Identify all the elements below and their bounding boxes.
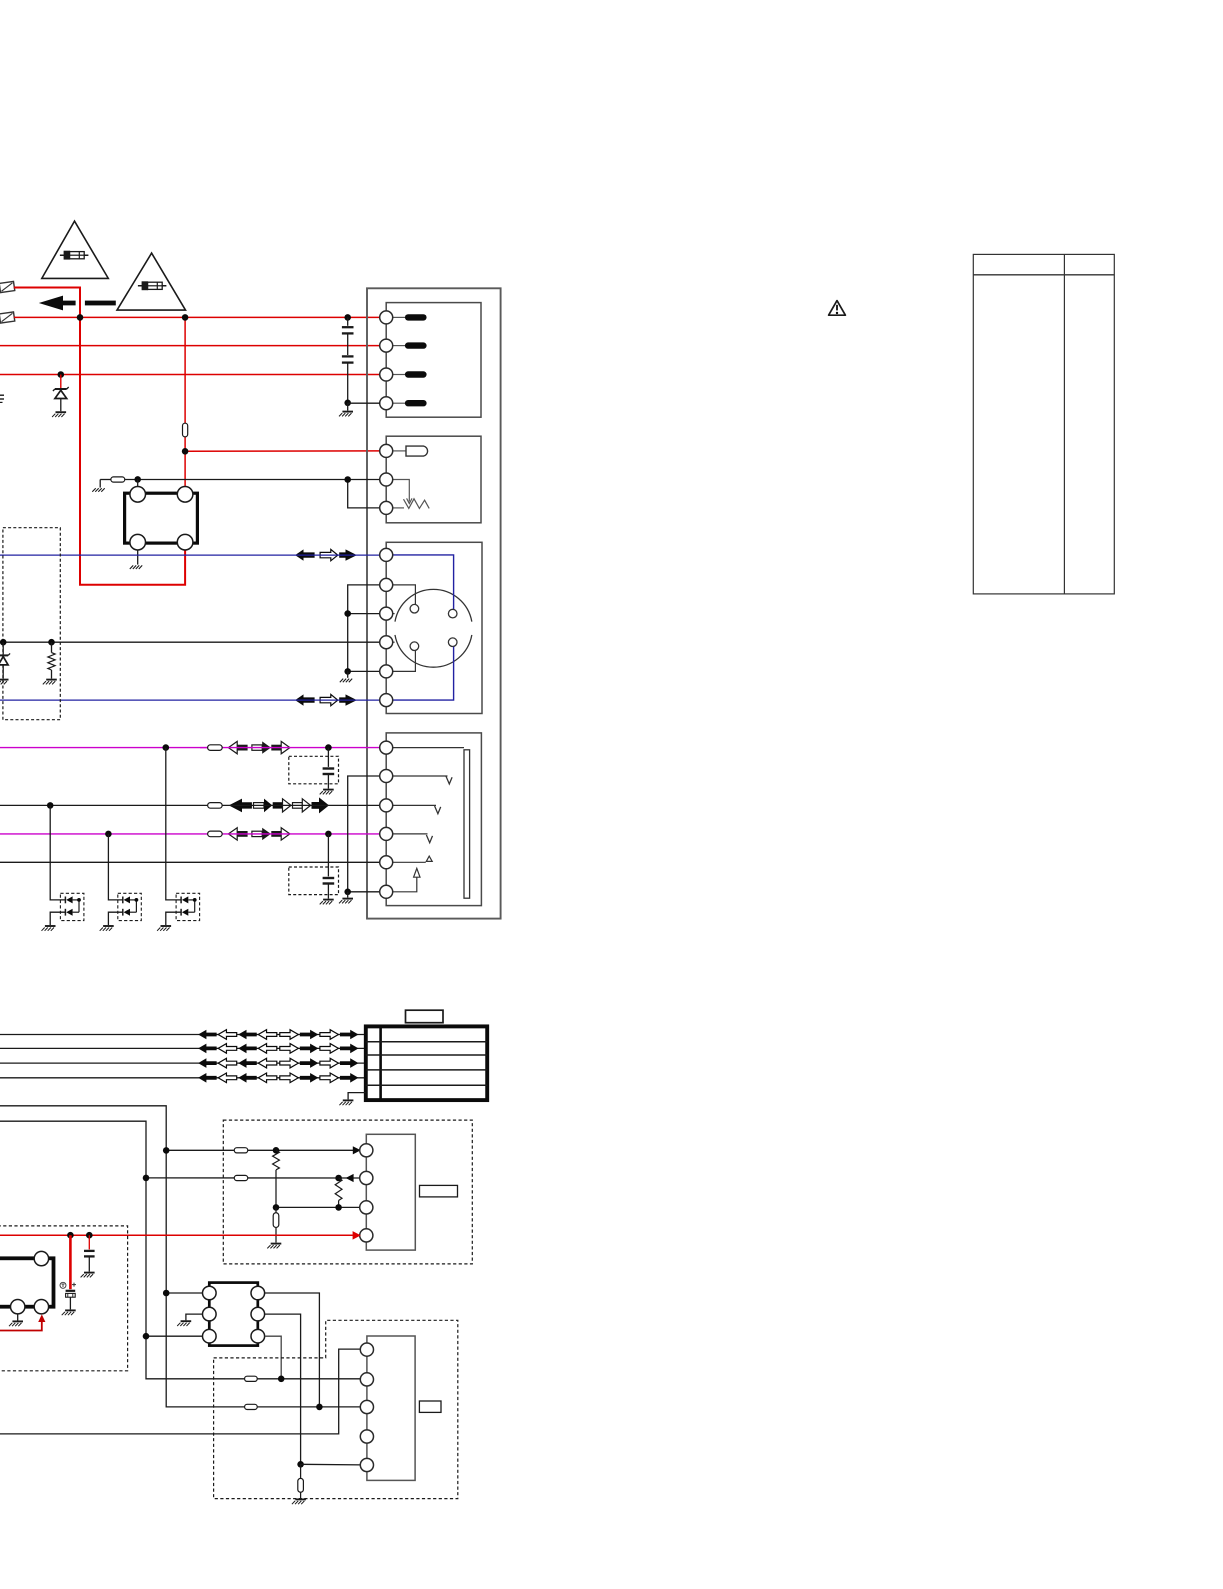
CN3 shield tie bbox=[348, 585, 381, 672]
wire U1 pin3 bbox=[146, 1335, 203, 1337]
ground for TVS Q1 bbox=[45, 925, 56, 927]
wire dimmer junction bbox=[125, 479, 380, 481]
ground for CN4 shield bbox=[342, 898, 353, 900]
ground for display bbox=[343, 1099, 354, 1101]
CN4 lead pin3 bbox=[392, 804, 436, 806]
parts table bbox=[973, 254, 1114, 594]
wire RL2 ground lead bbox=[17, 1314, 19, 1321]
pill resistor remote pin1 line bbox=[234, 1148, 248, 1153]
remote pins bbox=[360, 1144, 373, 1157]
remote inner box bbox=[366, 1134, 415, 1250]
wire U1 pin4 to lower pin2 bbox=[265, 1336, 282, 1379]
CN1 pins bbox=[380, 311, 393, 324]
caution symbol bbox=[829, 301, 846, 316]
CN2 pin3 lead bbox=[392, 507, 404, 509]
dashed unit box left bbox=[3, 528, 60, 720]
capacitor C1 bbox=[347, 317, 349, 325]
resistor R4 bbox=[335, 1178, 342, 1201]
remote wire pin1 bbox=[166, 1149, 354, 1151]
dashed box capacitor C4 bbox=[289, 867, 339, 895]
CN1 speaker blob pin1 bbox=[392, 316, 405, 318]
wire red ILL line bbox=[0, 374, 380, 376]
remote wire pin2 bbox=[146, 1177, 361, 1179]
pill resistor remote pin2 line bbox=[234, 1175, 248, 1180]
wire blue line 1 bbox=[0, 554, 380, 556]
relay RL2 pins bbox=[34, 1251, 48, 1265]
cut-off symbol at left edge bbox=[0, 394, 4, 396]
arrowhead into pin1 bbox=[353, 1146, 361, 1154]
bottom unit dashed box bbox=[214, 1320, 458, 1498]
IC U1 box bbox=[209, 1283, 257, 1346]
display unit box bbox=[366, 1026, 487, 1100]
CN3 pins bbox=[380, 548, 393, 561]
black direction arrow bbox=[39, 296, 76, 311]
wire bus line 2 bbox=[0, 1047, 366, 1049]
CN3 inner blue wire pin1 bbox=[392, 555, 453, 609]
bus arrow chain row 1 bbox=[198, 1030, 217, 1040]
display unit row lines bbox=[366, 1041, 487, 1043]
remote wire pin3 bbox=[276, 1206, 361, 1208]
wire red antenna line 1 bbox=[14, 288, 185, 585]
wire U1 pin5 to lower pin5 bbox=[265, 1314, 301, 1464]
wire red supply rail bbox=[0, 1234, 353, 1236]
connector block CN2 box bbox=[386, 436, 481, 523]
pill resistor bottom pin3 bbox=[245, 1404, 258, 1409]
node cap-gnd junction bbox=[344, 400, 351, 407]
black arrows row bbox=[229, 799, 252, 813]
TVS diode pair Q3 bbox=[166, 748, 181, 900]
DIN pin D bbox=[448, 638, 457, 647]
wire cap to CN1 pin4 bbox=[348, 402, 381, 404]
wire red to RL2 bbox=[0, 1322, 42, 1331]
display unit divider bbox=[379, 1026, 382, 1100]
magenta arrows row 1 bbox=[237, 745, 248, 751]
CN3 inner wire pin5 bbox=[392, 651, 415, 672]
CN3 inner wire pin4 bbox=[392, 641, 394, 643]
IC U1 pins bbox=[203, 1286, 217, 1300]
warning triangle W1 with fuse symbol bbox=[42, 221, 109, 278]
ground for C1/C2 bbox=[342, 411, 353, 413]
bus arrow chain row 3 bbox=[198, 1058, 217, 1068]
remote label box bbox=[420, 1185, 458, 1197]
bottom block pins bbox=[360, 1343, 373, 1356]
pill resistor bottom pin2 bbox=[245, 1376, 258, 1381]
wire bus line 3 bbox=[0, 1062, 366, 1064]
ground for R5 bbox=[271, 1243, 282, 1245]
CN4 lead pin5 bbox=[392, 861, 426, 863]
ground for TVS Q2 bbox=[103, 925, 114, 927]
relay RL1 pins bbox=[130, 487, 146, 503]
junction dots red rails bbox=[77, 314, 84, 321]
CN3 inner blue wire pin6 bbox=[392, 647, 453, 701]
pill resistors on signal rows bbox=[208, 745, 223, 751]
ground for R1 bbox=[92, 488, 95, 492]
relay RL1 box bbox=[125, 493, 198, 543]
ground for U1 pin2 bbox=[181, 1320, 192, 1322]
CN4 inner electrode bar bbox=[392, 747, 464, 749]
connector block CN3 box bbox=[386, 542, 482, 713]
resistor R1 bbox=[100, 479, 111, 481]
wire long line to pin1 bbox=[0, 1349, 361, 1434]
ground for C3 bbox=[323, 789, 334, 791]
zener diode D1 bbox=[60, 375, 62, 389]
wire black signal line bbox=[0, 804, 380, 806]
arrowhead out of pin2 bbox=[346, 1174, 354, 1182]
DIN jack circle bbox=[395, 589, 472, 621]
warning triangle W2 with fuse symbol bbox=[117, 253, 186, 310]
wire to ground bbox=[347, 403, 349, 410]
ground for C4 bbox=[323, 899, 334, 901]
bidirectional signal arrow top bbox=[295, 549, 315, 560]
black arrow dash bbox=[85, 301, 116, 306]
wire red P.ANT feed bbox=[185, 450, 380, 452]
wire bus line 1 bbox=[0, 1034, 366, 1036]
CN4 lead pin6 with up arrow bbox=[392, 877, 417, 891]
wire red ACC line bbox=[0, 345, 380, 347]
capacitor C3 bbox=[327, 748, 329, 767]
ground for TVS Q3 bbox=[161, 925, 172, 927]
wire black CN3 pin4 line bbox=[0, 641, 380, 643]
ground for RL1 bbox=[130, 565, 133, 569]
wire red BATT line bbox=[14, 316, 381, 318]
capacitor C2 bbox=[342, 355, 354, 357]
CN4 lead pin2 bbox=[392, 775, 447, 777]
wire red vertical to fuse/relay bbox=[184, 317, 186, 423]
dashed unit box bottom-left bbox=[0, 1226, 128, 1371]
DIN pin A bbox=[410, 604, 419, 613]
wire U1 pin6 to lower pin3 bbox=[265, 1293, 320, 1407]
capacitor C6 bbox=[88, 1235, 90, 1249]
display ground lead bbox=[348, 1093, 366, 1100]
junction dots signal rows bbox=[163, 744, 170, 751]
ground for RL2 bbox=[12, 1320, 23, 1322]
polarized capacitor C5 bbox=[66, 1290, 76, 1292]
capacitor C4 bbox=[327, 834, 329, 877]
antenna connector J2 bbox=[0, 312, 15, 323]
CN4 shield tie bbox=[348, 776, 381, 892]
red arrowhead into RL2 bbox=[38, 1314, 45, 1322]
TVS diode pair Q2 bbox=[108, 834, 122, 900]
CN4 pins bbox=[380, 741, 393, 754]
wire pin2-pin3 link bbox=[348, 480, 381, 508]
bus arrow chain row 4 bbox=[198, 1073, 217, 1083]
ground for D1 bbox=[56, 411, 67, 413]
bidirectional signal arrow bottom bbox=[295, 694, 315, 705]
wire blue line 2 bbox=[0, 699, 380, 701]
relay RL2 box bbox=[0, 1258, 54, 1306]
red arrowhead into remote pin4 bbox=[353, 1231, 361, 1240]
ground for R2 bbox=[46, 679, 57, 681]
CN1 speaker blob pin4 bbox=[392, 402, 405, 404]
connector outer box bbox=[367, 288, 501, 918]
junction dots on red rail bbox=[67, 1232, 74, 1239]
CN4 lead pin4 bbox=[392, 833, 427, 835]
CN3 inner wire pin3 bbox=[392, 613, 394, 615]
CN3 inner wire pin2 bbox=[392, 585, 415, 605]
ground for C5 bbox=[65, 1309, 76, 1311]
wire data line A bbox=[0, 1106, 361, 1407]
dashed box capacitor C3 bbox=[289, 756, 339, 784]
ground for D2 bbox=[0, 679, 9, 681]
antenna connector J1 bbox=[0, 281, 15, 292]
resistor R2 bbox=[48, 639, 55, 646]
wire data line B bbox=[0, 1121, 361, 1379]
DIN pin B bbox=[448, 609, 457, 618]
wire magenta line 1 bbox=[0, 747, 380, 749]
bottom inner box bbox=[367, 1336, 415, 1480]
DIN pin C bbox=[410, 642, 419, 651]
CN2 thermal resistor symbol bbox=[392, 480, 409, 502]
fuse F2 bbox=[183, 423, 188, 437]
resistor R3 bbox=[273, 1150, 280, 1170]
remote unit dashed box bbox=[223, 1120, 472, 1264]
wire black line row4 bbox=[0, 861, 380, 863]
display label box bbox=[406, 1010, 444, 1023]
wire bus line 4 bbox=[0, 1077, 366, 1079]
magenta arrows row 2 bbox=[237, 831, 248, 837]
CN1 speaker blob pin2 bbox=[392, 345, 405, 347]
wire U1 pin2 ground lead bbox=[186, 1314, 203, 1320]
ground for R6 bbox=[295, 1498, 306, 1500]
bus arrow chain row 2 bbox=[198, 1044, 217, 1054]
temperature mark bbox=[60, 1282, 66, 1288]
wire RL1 coil ground bbox=[137, 550, 139, 565]
connector block CN4 box bbox=[386, 733, 481, 906]
zener diode D2 bbox=[0, 639, 7, 646]
connector block CN1 box bbox=[386, 303, 481, 418]
ground for C6 bbox=[84, 1272, 95, 1274]
resistor pill magenta row1 bbox=[200, 747, 208, 749]
wire pin5 with resistor R6 bbox=[301, 1463, 361, 1466]
wire U1 pin1 bbox=[166, 1292, 202, 1294]
TVS diode pair Q1 bbox=[50, 805, 65, 900]
bottom label box bbox=[419, 1401, 441, 1412]
wire red drop to capacitor C5 bbox=[69, 1235, 72, 1289]
resistor R5 bbox=[275, 1207, 277, 1212]
CN2 lamp symbol bbox=[392, 450, 406, 452]
ground for CN3 shield bbox=[340, 679, 343, 683]
CN2 pins bbox=[380, 444, 393, 457]
CN1 speaker blob pin3 bbox=[392, 374, 405, 376]
wire magenta line 2 bbox=[0, 833, 380, 835]
